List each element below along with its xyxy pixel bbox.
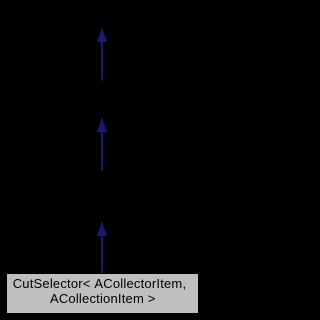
node CutSelector (grey box) xyxy=(6,273,199,313)
inheritance arrows SVG xyxy=(0,0,204,320)
wire: arrow 2 (middle) xyxy=(97,118,108,170)
wire: arrow 3 (from CutSelector box) xyxy=(97,222,108,273)
wire: arrow 1 (to invisible base class, top) xyxy=(97,28,108,80)
label CutSelector< ACollectorItem, ACollectionItem > xyxy=(6,276,199,306)
